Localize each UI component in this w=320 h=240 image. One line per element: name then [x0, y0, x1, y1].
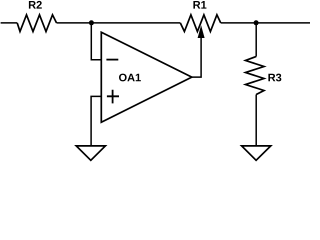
minus sign — [106, 59, 118, 61]
resistor R2 — [17, 15, 56, 32]
plus sign — [107, 90, 119, 104]
label R3 — [268, 74, 281, 82]
ground right — [242, 146, 271, 160]
label R2 — [29, 1, 42, 9]
wire inverting input — [91, 23, 101, 60]
node B junction dot — [254, 20, 259, 25]
wiper arrow — [198, 25, 205, 38]
wire node B to R3 — [255, 23, 257, 57]
label R1 — [193, 1, 206, 9]
op-amp OA1 — [101, 32, 192, 122]
wire output to wiper — [192, 37, 201, 77]
wire R3 to ground — [255, 95, 257, 146]
label OA1 — [119, 74, 141, 82]
resistor R3 — [246, 57, 265, 95]
wire output right — [256, 22, 310, 24]
node A junction dot — [89, 20, 94, 25]
potentiometer R1 — [180, 15, 220, 32]
ground left — [76, 146, 105, 160]
wire R1 to node B — [221, 22, 256, 24]
wire non-inverting input to ground — [91, 96, 101, 145]
wire input left — [1, 22, 18, 24]
wire node A to R1 — [57, 22, 181, 24]
